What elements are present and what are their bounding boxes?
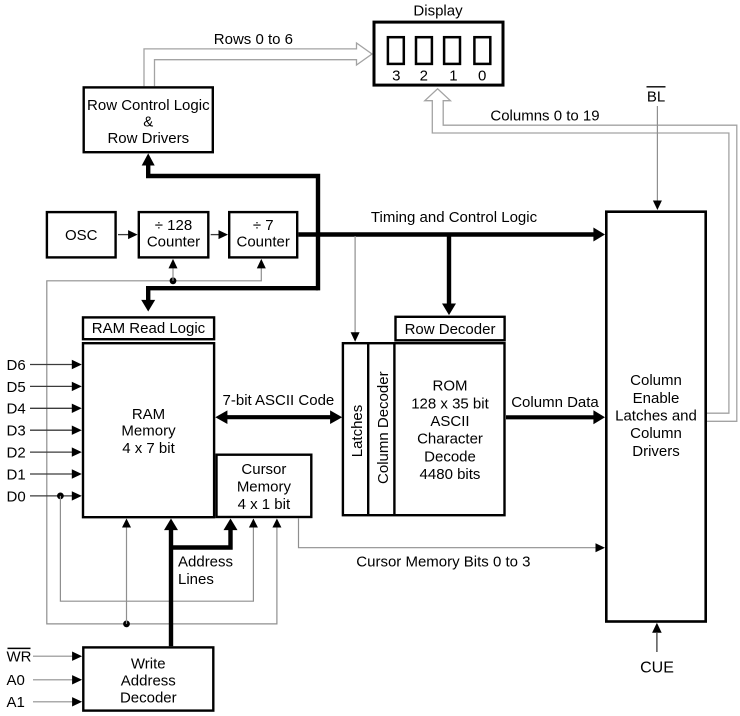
svg-text:÷ 7: ÷ 7: [253, 217, 274, 234]
svg-text:Decoder: Decoder: [120, 689, 177, 706]
svg-text:Write: Write: [131, 655, 166, 672]
input D3: [7, 423, 82, 440]
svg-text:&: &: [143, 113, 153, 130]
block: RAM Memory 4 x 7 bit: [83, 343, 214, 517]
wire: Columns 0 to 19 bus (hollow): [425, 89, 737, 422]
junction dot on feedback net at bottom, branch to RAM memory: [122, 519, 131, 628]
wire: thick branch down to Row Decoder: [442, 235, 456, 316]
wire: thick timing trunk up to Row Control (from junction x=318): [142, 153, 318, 290]
block: divide-by-128 counter: [139, 212, 209, 257]
block: Column Decoder: [368, 343, 394, 515]
svg-text:4 x 1 bit: 4 x 1 bit: [238, 496, 291, 513]
svg-text:Column: Column: [630, 425, 682, 442]
svg-text:Counter: Counter: [237, 233, 290, 250]
block: Column Enable Latches and Column Drivers: [606, 212, 705, 622]
svg-text:128 x 35 bit: 128 x 35 bit: [411, 395, 489, 412]
wire: Column Data (thick): [506, 410, 605, 424]
block: ROM 128 x 35 bit: [411, 378, 489, 483]
display cell 3: [388, 37, 404, 84]
svg-text:4480 bits: 4480 bits: [420, 466, 481, 483]
wire: Timing and Control Logic (thick, to Column Drivers): [299, 228, 606, 242]
svg-text:÷ 128: ÷ 128: [155, 217, 192, 234]
svg-text:Rows 0 to 6: Rows 0 to 6: [214, 31, 293, 48]
svg-text:Row Decoder: Row Decoder: [405, 321, 496, 338]
input D4: [7, 401, 82, 418]
svg-text:RAM Read Logic: RAM Read Logic: [92, 320, 206, 337]
svg-text:D4: D4: [7, 401, 26, 418]
label: Address Lines: [178, 553, 233, 587]
wire: divide-by-128 to divide-by-7: [211, 230, 228, 239]
svg-text:4 x 7 bit: 4 x 7 bit: [122, 440, 175, 457]
svg-text:0: 0: [478, 68, 486, 85]
svg-text:Cursor Memory Bits 0 to 3: Cursor Memory Bits 0 to 3: [356, 554, 530, 571]
label: BL (active low): [647, 87, 666, 106]
svg-text:Drivers: Drivers: [632, 443, 680, 460]
wire: thick branch down-left into RAM Read Logic: [141, 288, 318, 311]
block: divide-by-7 counter: [229, 212, 297, 257]
block: Cursor Memory 4 x 1 bit: [217, 455, 312, 517]
junction dot on feedback net below counters: [169, 259, 178, 284]
input A1: [7, 694, 83, 711]
display cell 2: [416, 37, 432, 84]
block: Write Address Decoder: [83, 647, 213, 710]
svg-text:Character: Character: [417, 431, 483, 448]
svg-text:Column Decoder: Column Decoder: [375, 371, 392, 484]
input D0 with junction to cursor write net: [7, 488, 82, 505]
block: Display: [374, 3, 503, 86]
svg-text:Address: Address: [178, 553, 233, 570]
svg-text:A1: A1: [7, 694, 25, 711]
svg-text:Row Control Logic: Row Control Logic: [87, 97, 210, 114]
svg-text:D2: D2: [7, 445, 26, 462]
svg-text:CUE: CUE: [640, 660, 674, 677]
svg-text:D1: D1: [7, 466, 26, 483]
wire: BL to Column Drivers: [653, 106, 662, 210]
wire: OSC to divide-by-128: [118, 230, 138, 239]
wire: thick address lines from Write Address Decoder: [164, 519, 238, 647]
input D6: [7, 357, 82, 374]
wire: timing to Latches (thin): [351, 236, 360, 342]
input WR (active low): [7, 648, 83, 665]
wire: Cursor Memory Bits 0 to 3: [299, 519, 606, 553]
svg-text:Latches and: Latches and: [615, 408, 697, 425]
input D1: [7, 466, 82, 483]
svg-text:Lines: Lines: [178, 571, 214, 588]
svg-text:D0: D0: [7, 488, 26, 505]
wire: gray feedback net from counters to RAM/Cursor read address: [47, 259, 282, 624]
input A0: [7, 672, 83, 689]
block: Row Decoder header: [396, 317, 505, 341]
svg-text:Timing and Control Logic: Timing and Control Logic: [371, 209, 538, 226]
svg-text:Column Data: Column Data: [511, 394, 599, 411]
block: OSC: [47, 212, 116, 257]
svg-text:Latches: Latches: [349, 405, 366, 458]
svg-text:3: 3: [392, 68, 400, 85]
svg-text:Display: Display: [413, 3, 463, 20]
svg-text:2: 2: [420, 68, 428, 85]
display cell 1: [444, 37, 460, 84]
wire: Rows 0 to 6 bus (hollow): [144, 43, 372, 86]
svg-text:D3: D3: [7, 423, 26, 440]
svg-text:Enable: Enable: [633, 390, 680, 407]
svg-text:A0: A0: [7, 672, 25, 689]
svg-text:Address: Address: [121, 672, 176, 689]
svg-text:OSC: OSC: [65, 227, 98, 244]
svg-text:Cursor: Cursor: [241, 461, 286, 478]
display cell 0: [474, 37, 490, 84]
svg-text:Counter: Counter: [147, 233, 200, 250]
svg-text:7-bit ASCII Code: 7-bit ASCII Code: [223, 392, 335, 409]
wire: CUE input to Column Drivers: [640, 623, 674, 677]
svg-text:ASCII: ASCII: [430, 413, 469, 430]
block: Row Control Logic & Row Drivers: [84, 87, 213, 152]
input D5: [7, 379, 82, 396]
svg-text:RAM: RAM: [132, 406, 165, 423]
svg-text:Decode: Decode: [424, 448, 476, 465]
svg-text:Columns 0 to 19: Columns 0 to 19: [490, 107, 599, 124]
svg-text:WR: WR: [7, 649, 32, 666]
svg-text:D5: D5: [7, 379, 26, 396]
block: Latches: [343, 343, 505, 515]
svg-text:ROM: ROM: [433, 378, 468, 395]
svg-text:Column: Column: [630, 372, 682, 389]
svg-text:Memory: Memory: [237, 478, 292, 495]
svg-text:Row Drivers: Row Drivers: [107, 130, 189, 147]
junction dot on D0: [57, 493, 64, 500]
wire: D0 net down to Cursor Memory: [60, 496, 258, 601]
input D2: [7, 445, 82, 462]
block: RAM Read Logic header: [83, 317, 214, 339]
svg-text:D6: D6: [7, 357, 26, 374]
svg-text:1: 1: [449, 68, 457, 85]
wire: 7-bit ASCII Code double arrow: [215, 410, 342, 424]
svg-text:Memory: Memory: [121, 422, 176, 439]
svg-text:BL: BL: [647, 89, 665, 106]
